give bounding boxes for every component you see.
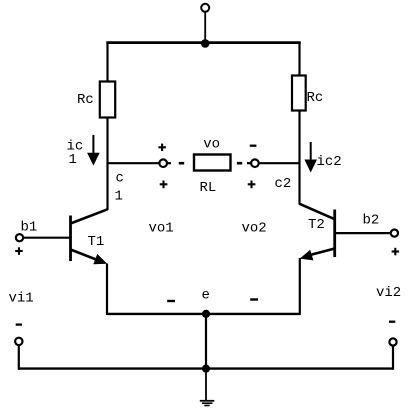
label + (vi2 top) bbox=[392, 248, 400, 256]
resistor Rc (left) bbox=[100, 82, 115, 118]
wire right branch mid bbox=[298, 111, 300, 205]
svg-text:b2: b2 bbox=[363, 213, 380, 229]
svg-text:vi1: vi1 bbox=[9, 291, 34, 307]
ground bar 3 bbox=[204, 405, 209, 407]
ground bar 1 bbox=[200, 400, 215, 402]
wire emitter bus bbox=[107, 313, 300, 315]
label + (vi1 top) bbox=[15, 247, 23, 255]
transistor T2 base bar bbox=[333, 210, 336, 258]
wire bottom bus bbox=[19, 367, 393, 369]
svg-text:vo: vo bbox=[203, 137, 220, 153]
label + (below c1, vo1 polarity) bbox=[160, 181, 168, 189]
svg-text:c2: c2 bbox=[275, 176, 292, 192]
supply terminal (top) bbox=[201, 4, 209, 12]
svg-text:T2: T2 bbox=[308, 217, 325, 233]
ground stem bbox=[205, 369, 207, 401]
wire dash left of RL bbox=[179, 162, 184, 165]
node vi2 terminal bbox=[389, 338, 396, 345]
transistor T1 collector stroke bbox=[71, 209, 108, 223]
svg-text:Rc: Rc bbox=[77, 92, 94, 108]
svg-text:e: e bbox=[202, 288, 210, 304]
svg-text:c: c bbox=[116, 171, 124, 187]
svg-text:ic2: ic2 bbox=[317, 154, 342, 170]
wire T2 base lead bbox=[335, 232, 391, 234]
label - (above vi1 terminal) bbox=[16, 323, 22, 325]
svg-text:T1: T1 bbox=[88, 234, 105, 250]
svg-text:RL: RL bbox=[200, 180, 217, 196]
transistor T1 emitter arrowhead bbox=[93, 254, 107, 264]
transistor T2 emitter arrowhead bbox=[300, 250, 314, 261]
node vi1 terminal bbox=[15, 338, 22, 345]
wire c1 nub bbox=[167, 162, 171, 164]
svg-text:b1: b1 bbox=[21, 220, 38, 236]
wire c1 tap bbox=[108, 162, 160, 164]
label - (left of e) bbox=[167, 300, 175, 302]
wire supply stub bbox=[204, 12, 206, 44]
label - (above c2) bbox=[250, 145, 257, 147]
transistor T2 emitter stroke bbox=[310, 249, 335, 256]
wire vi1 stub bbox=[18, 345, 20, 370]
arrow ic1 bbox=[87, 135, 100, 166]
wire T1 base lead bbox=[23, 237, 70, 239]
node b2 terminal bbox=[391, 230, 398, 237]
resistor Rc (right) bbox=[292, 76, 306, 111]
wire left branch mid bbox=[106, 118, 108, 211]
junction node e bbox=[202, 310, 210, 318]
resistor RL bbox=[194, 155, 231, 171]
svg-text:Rc: Rc bbox=[307, 90, 324, 106]
label - (right of e) bbox=[250, 298, 258, 300]
wire left branch upper bbox=[106, 43, 108, 82]
node c2 terminal bbox=[251, 159, 259, 167]
label + (below c2, vo2 polarity) bbox=[248, 181, 256, 189]
svg-text:vo2: vo2 bbox=[242, 221, 267, 237]
wire c2 nub bbox=[247, 162, 251, 164]
transistor T1 base bar bbox=[69, 216, 72, 262]
wire vi2 stub bbox=[392, 346, 394, 370]
wire top bus bbox=[106, 41, 300, 44]
svg-text:1: 1 bbox=[115, 189, 123, 205]
wire right emitter drop bbox=[299, 258, 301, 315]
wire e to bottom bus bbox=[205, 314, 207, 369]
arrow ic2 bbox=[304, 142, 317, 173]
junction bottom node bbox=[202, 365, 210, 373]
svg-text:1: 1 bbox=[69, 152, 77, 168]
wire c2 tap bbox=[259, 162, 300, 164]
label + (above c1) bbox=[158, 144, 166, 151]
transistor T1 emitter stroke bbox=[71, 250, 101, 262]
wire dash right of RL bbox=[237, 162, 242, 165]
ground bar 2 bbox=[202, 402, 213, 404]
svg-text:vi2: vi2 bbox=[376, 285, 401, 301]
label - (above vi2 terminal) bbox=[389, 321, 395, 323]
node c1 terminal bbox=[159, 159, 167, 167]
wire right branch upper bbox=[298, 43, 300, 76]
wire left emitter drop bbox=[106, 264, 108, 316]
junction top node bbox=[201, 39, 210, 48]
transistor T2 collector stroke bbox=[300, 204, 335, 219]
svg-text:vo1: vo1 bbox=[149, 221, 174, 237]
node b1 terminal bbox=[16, 234, 23, 241]
